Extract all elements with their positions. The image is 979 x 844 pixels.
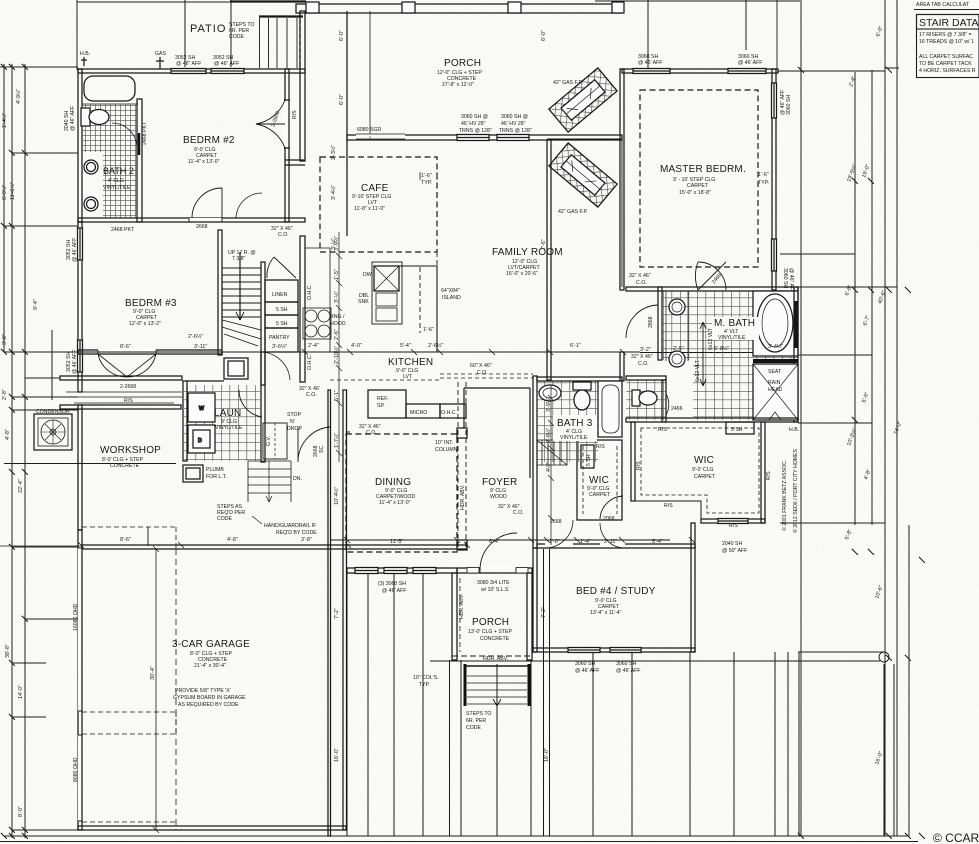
dim line right v6 [908, 525, 910, 836]
bath3 tub [598, 381, 622, 437]
dim line right v1 [800, 0, 802, 836]
wic big outline [631, 422, 768, 523]
bath3 stairsdiag [537, 440, 567, 465]
top dim extension x77 [76, 0, 78, 70]
laundry door arc 2668 [239, 390, 262, 417]
label PATIO [190, 23, 226, 35]
dim text 5'-8" right [844, 284, 853, 296]
dim 7'-6.5" fam [782, 342, 797, 349]
label UP 17R [228, 250, 256, 262]
dbl sink [372, 262, 402, 324]
label RS wic bottom [664, 503, 673, 509]
sgd opening 6080 [356, 134, 405, 139]
dining west porch wall [346, 432, 350, 545]
wall bath2/bedrm2 [137, 99, 142, 222]
wic small 5sh [581, 445, 594, 468]
label DBL SINK [358, 293, 369, 305]
label R/S rot bedrm2 [292, 110, 298, 119]
top dim extension x185 [184, 0, 186, 67]
bell circle [879, 652, 889, 662]
label 3060 trns b [499, 114, 532, 134]
master dashed ceiling [640, 90, 758, 267]
right dim ticks [798, 67, 925, 839]
wic window 2040 [718, 519, 748, 524]
mbath tub [757, 294, 793, 352]
dining window b [384, 568, 407, 574]
fireplace lower 42gas [549, 143, 617, 207]
window 3060 trns b [497, 135, 529, 141]
foyer left dashed wall [458, 382, 466, 548]
label 3car garage [172, 639, 250, 669]
label FOYER [482, 477, 517, 500]
label 3052 SH b [213, 55, 239, 67]
dim text 22'-4" [18, 479, 24, 493]
porch left dashed [299, 13, 301, 68]
label 8080 ohd rot [73, 757, 79, 782]
copyright sed6 rot [792, 448, 799, 533]
label 16080 ohd rot [73, 603, 79, 631]
dim text 9'-4" [33, 299, 39, 310]
label H.B. [80, 51, 90, 57]
dim 5'-4" bed4 [652, 539, 663, 545]
label 2068 [603, 516, 615, 522]
wic big left wall [631, 422, 635, 501]
dim 4'-0" kitchen [351, 343, 362, 349]
kitchen south counter [330, 380, 466, 418]
family/kitchen dashed break [436, 252, 438, 266]
label 3052 SH a [175, 55, 201, 67]
label 2668 foyer [550, 519, 562, 525]
dim 5'-4" kitchen [400, 343, 411, 349]
garage west wall [78, 530, 82, 830]
wic big inner dashed [641, 428, 759, 513]
top dim tie [77, 1, 302, 3]
kitchen west wall [300, 236, 305, 382]
left dim tick marks [1, 64, 28, 839]
label OHC kitchen [441, 410, 457, 416]
label OHC stop rot [0, 0, 1, 1]
master right wall [772, 69, 776, 290]
wic small outline [577, 440, 622, 520]
label 2468 master rot [711, 273, 723, 286]
dim 2'-11" [604, 539, 617, 545]
bed4 left wall [533, 548, 537, 652]
wall bedrm3 left [78, 222, 82, 392]
garage ohd8 dashes [82, 712, 176, 822]
label 3052 bedrm3 b rot [66, 350, 78, 374]
dim 3'-11" [194, 344, 207, 350]
foyer dim line [330, 537, 695, 543]
stairs dn [248, 461, 291, 502]
stair treads [222, 268, 261, 346]
label OHC rot b [307, 354, 313, 370]
linen closet box [265, 280, 298, 328]
wic big right wall [761, 422, 765, 523]
wall top bedrm2 [78, 69, 305, 73]
dim text 6'-9.5" [1, 185, 8, 200]
patio left line [184, 0, 186, 67]
dim text 4'-8" right [863, 468, 872, 480]
dim text 5'-5" [861, 391, 870, 403]
label hdr abv rot [460, 485, 466, 510]
dim 3'-6.5" cafe low [330, 238, 337, 250]
label MASTER BEDRM [660, 164, 746, 196]
dim 7'-2" dining rot [334, 608, 340, 619]
area tab text [914, 2, 979, 10]
laundry walls [183, 352, 265, 462]
dim line right v4 [884, 0, 886, 836]
cafe dashed ceiling rect [320, 157, 437, 252]
mbath sink a [669, 299, 685, 315]
dim 8'-6" bedrm3 [120, 344, 131, 350]
label RNG HOOD [330, 314, 346, 327]
label WIC small [587, 475, 611, 498]
top dim extension x746 [745, 0, 747, 50]
bath3 toilet [573, 382, 591, 410]
dim 3'-4.5" cafe [330, 185, 337, 200]
dim 11'-5" dining [390, 539, 403, 545]
bathtub bath2 [82, 73, 138, 104]
garage bottom wall [78, 826, 346, 830]
dim 1'-7.5 run [333, 433, 340, 448]
label 2468 PKT rot [142, 121, 148, 145]
window master right b [772, 239, 777, 271]
label 2668 bedrm2 door [196, 224, 208, 230]
porch2 steps [465, 664, 529, 706]
mbath 6x12 vlt arrow [700, 322, 706, 386]
top dim extension x648 [647, 0, 649, 69]
wic small dashed [583, 446, 617, 514]
label 42 gas fp lower [558, 209, 588, 215]
bed4 window a [568, 648, 600, 653]
label 10 int column a [435, 440, 458, 453]
stair data box [917, 15, 979, 78]
label hdr abv porch [483, 656, 508, 662]
window 3052 SH b [211, 69, 244, 74]
label 3060 trns a [459, 114, 492, 134]
label 60x46 hall [470, 363, 492, 376]
label 32x46 master co [629, 273, 651, 286]
laundry tile [184, 385, 260, 461]
bath3 top wall [537, 377, 622, 381]
label PORCH bottom [468, 617, 512, 642]
wall bedrm3 bottom [78, 350, 222, 354]
master left wall [620, 69, 624, 290]
dim text 74'-0" [893, 421, 903, 436]
window 3052 SH a [171, 69, 206, 74]
label 5 SH wic [731, 427, 743, 433]
label 32x46 kitchen [359, 424, 381, 436]
mbath wc tile [626, 380, 666, 420]
master right wall top ext [776, 0, 778, 69]
door arc bedrm2 double right [256, 100, 285, 148]
mbath door 2868 [626, 305, 658, 338]
garage interior dim [153, 546, 159, 833]
pantry door arc [262, 352, 290, 380]
gas riser symbol [156, 57, 164, 69]
label 3060 master a [638, 54, 662, 66]
dim line left v2 [11, 64, 13, 838]
top dim extension x231 [230, 0, 232, 67]
label RAIN HEAD [768, 380, 783, 393]
dim text 5'-8" right2 [844, 528, 853, 540]
hall door arc top [267, 257, 296, 278]
label 3 3060 sh [378, 581, 406, 594]
mbath top wall [626, 287, 798, 291]
label steps to 6r bottom [466, 711, 491, 731]
bottom dim line [0, 836, 918, 842]
bottom long verticals [450, 549, 895, 836]
label 2-2668 bedrm3 [120, 384, 136, 390]
label WIC big [692, 455, 716, 480]
porch column d [612, 2, 624, 13]
dim 6'-0" fam [541, 30, 547, 41]
label 3080 lite [477, 580, 510, 593]
hallway wall bath3-wic [533, 376, 537, 548]
label 2468 PKT bottom [111, 227, 135, 233]
window master top b [728, 69, 766, 74]
dim 3'-4.5" mb [768, 343, 783, 350]
dim text 6' right [0, 0, 1, 1]
label 6080 SGD [357, 127, 381, 133]
pantry walls [265, 328, 298, 352]
label STEPS AS REQD [217, 504, 245, 522]
porch column a [306, 2, 319, 13]
stopdrop door arc [298, 427, 330, 462]
dim 4'-8" garage [227, 537, 238, 543]
dryer box [188, 425, 215, 453]
dim 8'-6" garage [120, 537, 131, 543]
garage top wall [82, 545, 467, 549]
label BEDRM 3 [125, 298, 177, 327]
dim text 4'-9.5" [15, 89, 22, 104]
dim 3'-8" garage [301, 537, 312, 543]
dim text 2'-8" left [2, 389, 8, 400]
mbath right wall [794, 287, 799, 422]
dim line left v1 [3, 64, 5, 352]
mbath tile floor [662, 291, 798, 420]
dim text 10'-6" right [874, 585, 884, 600]
label OHC rot a [307, 284, 313, 300]
label KITCHEN [388, 357, 433, 380]
front door leaf arc [480, 533, 517, 570]
dim 3'-.5 run [333, 291, 340, 303]
dim 6'-4" foyer [489, 539, 500, 545]
dim line right v3 [871, 70, 873, 525]
mbath sink b [669, 351, 685, 367]
shower curb dark [753, 359, 798, 363]
label REF SP [377, 396, 388, 409]
label hdr abv porch rot [459, 594, 465, 619]
label BATH 2 [103, 166, 134, 191]
patio steps top [230, 2, 306, 69]
dim 7'-2" porch rot [541, 607, 547, 618]
label 2-2668 rot bedrm2 [270, 110, 281, 127]
washer box [188, 393, 215, 422]
label 3060 master right b rot [782, 268, 794, 293]
laundry sink [224, 358, 248, 379]
label 32x46 mb [631, 354, 653, 367]
sink bath2 a [84, 160, 98, 174]
bath2 door arc [112, 123, 137, 148]
chase tie [285, 160, 305, 165]
dim text 4'-8" left [5, 429, 11, 440]
dim line left v4 [51, 330, 53, 400]
porch bottom wall [347, 135, 622, 140]
dim text 3'-8" left [2, 334, 8, 345]
label DW [363, 272, 372, 278]
label RS near stairs [596, 444, 605, 450]
dim text 38'-8" [5, 644, 11, 658]
label PANTRY [269, 335, 290, 350]
wall bedrm2 right [284, 69, 290, 222]
label 2040 sh wic [722, 541, 747, 554]
dim 1'-0" [549, 539, 560, 545]
fireplace mid tie [547, 138, 622, 140]
mbath tub surround [753, 291, 798, 356]
bed4 window b [610, 648, 641, 653]
dim 7'-6" fam rot [541, 239, 547, 250]
dim run x339 [336, 232, 342, 462]
bed4 right wall [691, 523, 695, 652]
label MICRO [410, 410, 427, 416]
label STOP N DROP [287, 412, 303, 432]
toilet bath2 [81, 108, 109, 126]
wall workshop left [78, 405, 82, 530]
label R/S closet [124, 398, 133, 404]
label gypsum note [173, 688, 246, 708]
mbath wc door arc [666, 394, 669, 415]
label 32x46 co bedrm2 [271, 226, 293, 238]
dw box [374, 266, 399, 291]
family room porch edge [621, 140, 623, 287]
bed4 top wall [537, 544, 695, 548]
wic small door arc [600, 496, 623, 519]
dim 16'-0" dining rot [334, 748, 340, 762]
dining window c [413, 568, 436, 574]
mbath bottom wall [626, 418, 798, 422]
dim 1'-4" [580, 539, 591, 545]
label 2466 [671, 406, 683, 412]
wall below bedrm2 door gap [189, 218, 222, 222]
family room right wall [547, 140, 551, 380]
dim 16'-0" mid rot [544, 748, 550, 762]
plumb lt box [183, 465, 203, 482]
label 3060 master right a rot [780, 90, 792, 115]
mbath wc walls [626, 376, 666, 422]
label RS wic left rot [636, 461, 642, 470]
dim 2'-10.5 run [333, 346, 340, 364]
stair left wall [218, 230, 222, 355]
bath3 tile [537, 381, 598, 462]
label LAUN [214, 408, 243, 431]
dim line right v2 [854, 72, 856, 525]
copyright betz rot [781, 460, 788, 531]
label BATH 3 [553, 415, 597, 441]
window master top a [633, 69, 670, 74]
bed4 door arc [545, 520, 625, 548]
dim text 10'-3.5" [845, 427, 858, 447]
label GV rot [266, 436, 272, 446]
dim 1'-5 run [334, 269, 340, 280]
label RS wic right rot [766, 471, 772, 480]
mbath left wall [658, 287, 662, 360]
label 5 SH small rot [586, 454, 592, 466]
island outline [376, 266, 437, 352]
dim 3'-2" mb [640, 347, 651, 353]
wall workshop top [60, 405, 181, 409]
dim text 8'-0" left [18, 806, 24, 817]
dim 2'-6.5 kitchen [428, 342, 443, 349]
dim text 1'-4.5" left [1, 113, 8, 128]
dim text 16'-0" right [874, 751, 884, 766]
wall bedrm2 bottom [78, 218, 305, 222]
dim line left v3 [24, 64, 26, 838]
front door wall [457, 568, 532, 574]
label 32x46 stop [299, 386, 320, 398]
label GAS [155, 51, 166, 57]
porch2 bottom line [430, 656, 880, 661]
label 2868 rot [648, 316, 654, 328]
foyer column a [457, 428, 467, 438]
stair right wall [261, 262, 265, 385]
dim 2'-8.5 f [545, 428, 552, 443]
dim text 2'-4" right [848, 75, 857, 87]
door arc bedrm2 bottom [192, 188, 262, 218]
label 6x12 vlt [695, 327, 714, 382]
label 3060 master b [738, 54, 762, 66]
pocket door bath2 [138, 133, 141, 155]
label CAFE [352, 183, 391, 212]
label condensor [36, 409, 70, 415]
kitchen dim line mid [60, 349, 798, 355]
dim 4.5 f [545, 463, 552, 472]
label BED4 STUDY [576, 586, 656, 616]
label LINEN [272, 292, 288, 327]
dim 2'-6 run [334, 329, 340, 340]
wall chase porch left [300, 11, 305, 161]
label island [441, 288, 461, 301]
label 42 gas fp upper [553, 80, 583, 86]
label FAMILY ROOM [492, 247, 563, 277]
dim 1-6 island [423, 327, 434, 333]
dim 1'-6" typ cafe [420, 172, 437, 186]
mbath vanity line [666, 291, 688, 361]
dim 5'-8.5" mb [714, 345, 729, 352]
dim 2'-6.5" [188, 333, 203, 340]
dining dashed ceiling [346, 434, 457, 552]
dim 10'-4.5" left rot [333, 487, 340, 505]
dim text 6'-0" right top [875, 25, 884, 37]
label BEDRM 2 [183, 135, 235, 165]
master top tie right [778, 70, 885, 72]
wic bottom wall [701, 519, 765, 523]
dim text 6'-7" [862, 314, 871, 326]
label RS wic bottom2 [729, 523, 738, 529]
stair rail center [236, 252, 244, 320]
bed4 bottom wall [533, 648, 695, 652]
dim line right v5 [896, 0, 898, 836]
garage ohd16 dashes [82, 527, 176, 549]
dim 6'-0" cafe b [339, 94, 345, 105]
label HANDRAIL [252, 516, 317, 536]
dim 6'-1" fam [570, 343, 581, 349]
porch2 left wall [452, 573, 460, 660]
cafe dim ext [369, 11, 371, 138]
dining window a [355, 568, 378, 574]
label 3060 bed4 a [575, 661, 599, 674]
stopdrop closet box [263, 423, 287, 459]
